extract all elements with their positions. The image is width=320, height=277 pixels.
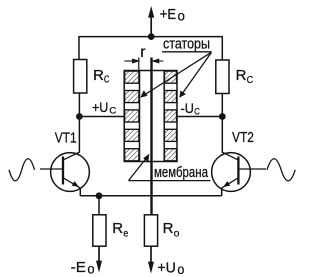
- source sine right: [267, 159, 295, 181]
- wire VT1 collector: [78, 117, 80, 153]
- wire VT1 emitter drop: [79, 188, 81, 196]
- svg-text:C: C: [109, 106, 116, 117]
- node +Uc dot: [76, 113, 83, 120]
- resistor Re: [93, 215, 106, 246]
- transistor VT1: [40, 152, 89, 191]
- wire to Re: [98, 196, 100, 215]
- svg-text:+U: +U: [157, 260, 176, 277]
- svg-text:R: R: [93, 67, 104, 84]
- wire Re down arrow -Eo: [96, 246, 102, 272]
- wire emitter rail: [80, 195, 221, 197]
- resistor Rc right: [216, 60, 229, 94]
- svg-text:C: C: [247, 74, 254, 86]
- transistor VT2: [212, 152, 266, 191]
- svg-text:+E: +E: [160, 6, 176, 23]
- svg-text:о: о: [87, 261, 94, 276]
- wire top rail: [79, 36, 222, 38]
- resistor Ro: [144, 215, 157, 246]
- wire Rc to node: [78, 93, 80, 117]
- svg-text:+U: +U: [92, 100, 108, 115]
- wire left drop to Rc: [78, 36, 80, 60]
- stator right hatched blocks: [165, 71, 177, 161]
- svg-text:-E: -E: [71, 259, 86, 276]
- node junction top: [148, 33, 155, 40]
- svg-text:R: R: [112, 220, 123, 237]
- svg-text:VT2: VT2: [232, 129, 254, 146]
- wire +Uc to stator: [79, 116, 124, 118]
- svg-text:о: о: [174, 227, 180, 239]
- svg-text:R: R: [163, 220, 174, 237]
- power +Eo arrow: [148, 6, 154, 37]
- wire Rc to node right: [221, 94, 223, 117]
- dimension r arrows: [124, 59, 163, 63]
- resistor Rc left: [74, 60, 87, 94]
- svg-text:о: о: [177, 262, 184, 277]
- source sine left: [9, 159, 35, 181]
- wire right drop to Rc: [221, 36, 223, 60]
- arrow to right stator: [179, 52, 211, 98]
- arrow to membrane: [129, 154, 150, 181]
- membrane line: [150, 58, 152, 215]
- svg-text:C: C: [104, 74, 110, 86]
- svg-text:статоры: статоры: [163, 35, 210, 52]
- wire VT2 emitter drop: [221, 188, 223, 196]
- svg-text:r: r: [140, 44, 145, 61]
- svg-text:C: C: [194, 106, 200, 117]
- svg-text:e: e: [123, 227, 128, 239]
- svg-text:R: R: [236, 67, 247, 84]
- svg-text:VT1: VT1: [55, 129, 77, 146]
- dimension r tick: [138, 58, 140, 71]
- wire Ro down arrow +Uo: [148, 246, 154, 273]
- arrow to left stator: [140, 52, 211, 98]
- svg-text:о: о: [178, 8, 185, 23]
- svg-text:-U: -U: [181, 101, 194, 116]
- stator left hatched blocks: [125, 71, 139, 161]
- svg-text:мембрана: мембрана: [154, 164, 209, 181]
- node -Uc dot: [219, 113, 226, 120]
- wire -Uc to stator: [177, 116, 222, 118]
- wire VT2 collector: [221, 117, 223, 153]
- capacitor sensor outer box: [124, 71, 177, 162]
- node emitter dot: [96, 192, 103, 199]
